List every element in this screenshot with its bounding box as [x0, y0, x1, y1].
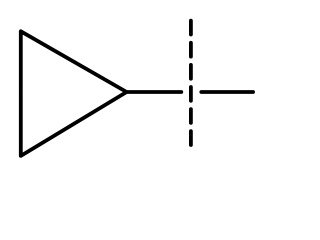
- attachment point dashed line: [189, 21, 193, 147]
- bond left segment: [127, 90, 182, 94]
- cyclopropane ring: [21, 31, 127, 156]
- bond right segment: [201, 90, 253, 94]
